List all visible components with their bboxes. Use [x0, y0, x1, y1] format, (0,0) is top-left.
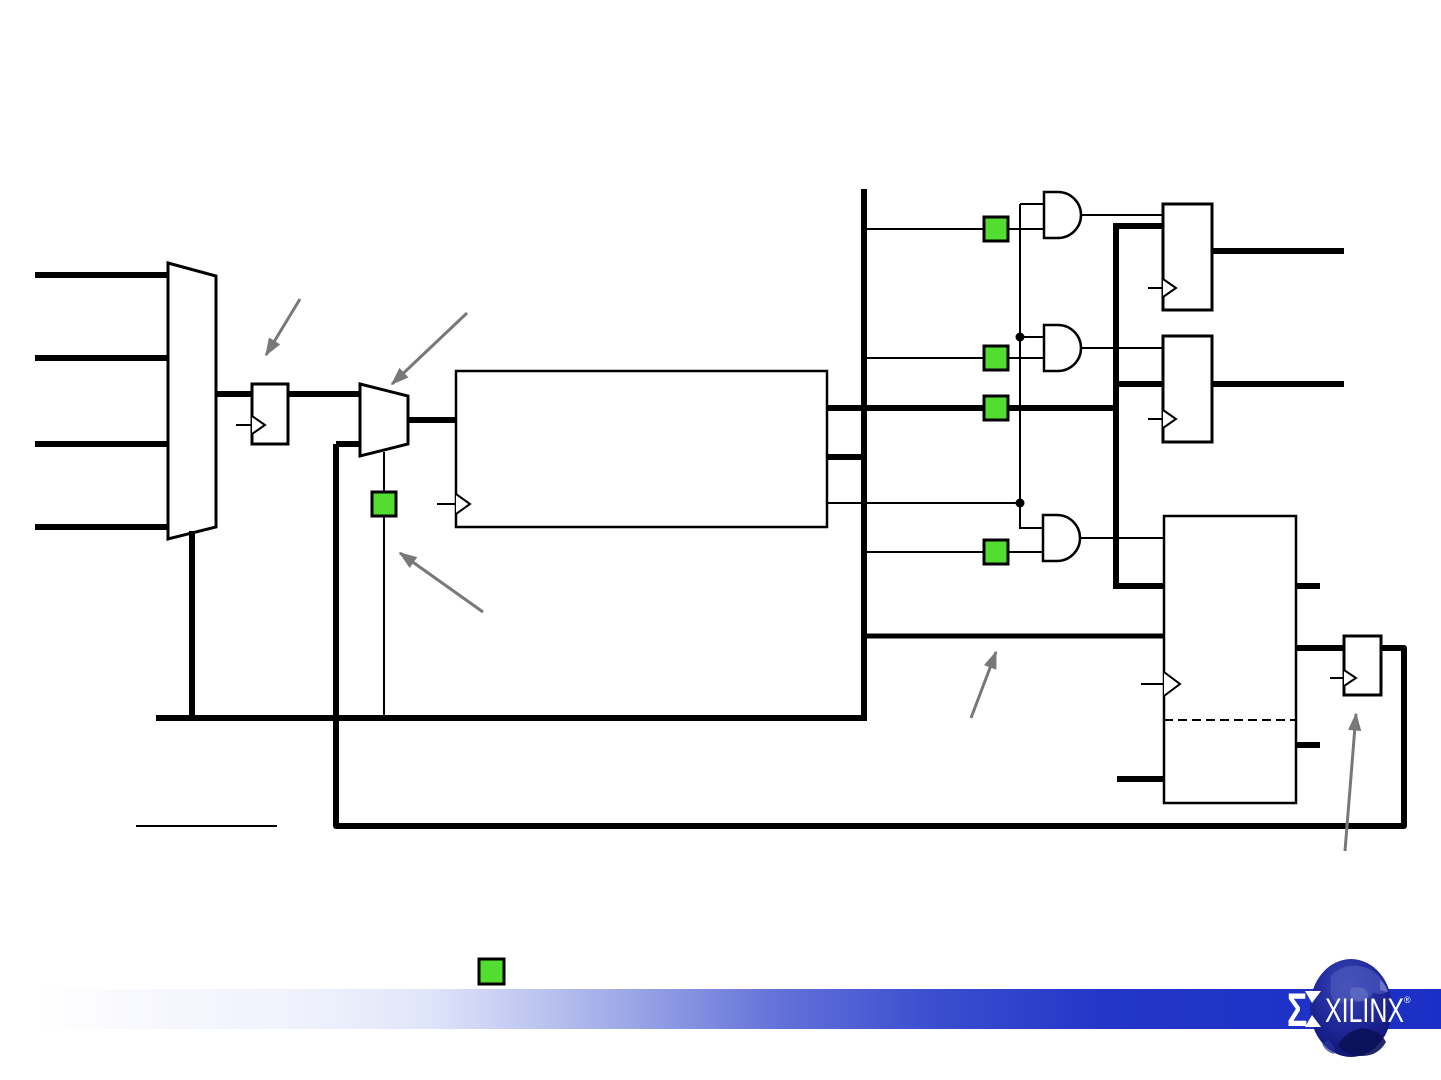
wire input line 3 to mux M1: [35, 441, 170, 447]
wire mux M1 output to flip-flop FF-A: [216, 391, 252, 397]
AND gate G1: [1044, 192, 1081, 238]
wire bus B1 to shift register (medium): [864, 634, 1164, 639]
wire SR1 stub right top: [1296, 583, 1320, 589]
LUT clock stub: [437, 503, 456, 505]
AND gate G2: [1044, 325, 1081, 371]
flip-flop FF2: [1163, 336, 1212, 442]
wire G1 output to FF1: [1081, 214, 1163, 216]
FF1 clock stub: [1148, 287, 1163, 289]
wire G2 output to FF2: [1081, 347, 1163, 349]
wire B1 to config cell CC2 row: [864, 357, 984, 359]
wire input line 4 to mux M1: [35, 524, 170, 530]
wire select line vertical (AND enable chain): [1020, 204, 1043, 528]
config cell square on M2 select: [372, 492, 396, 516]
config cell CC2: [984, 346, 1008, 370]
svg-text:Σ: Σ: [1287, 984, 1307, 1037]
config cell CC1: [984, 217, 1008, 241]
arrow annotation A3 (points at config cell on M2 select): [400, 553, 483, 612]
bus B1 (vertical feedback bus): [156, 189, 864, 718]
wire B1 to config cell CC1 row: [864, 228, 984, 230]
SR1 clock stub: [1141, 683, 1164, 685]
FF-A clock stub: [236, 424, 252, 426]
AND gate G3: [1043, 515, 1080, 561]
FF-A clock triangle: [252, 416, 265, 434]
SR1 clock triangle: [1164, 672, 1180, 696]
node junction dot J1: [1016, 333, 1025, 342]
arrow annotation A2 (points at mux M2): [392, 313, 467, 384]
FF3 clock triangle: [1344, 670, 1356, 686]
wire FF1 output: [1212, 248, 1344, 254]
bus B2 (vertical distribution bus): [1116, 226, 1164, 586]
wire CC4 to AND3 input: [1008, 551, 1043, 553]
config cell CC4: [984, 540, 1008, 564]
wire B1 to config cell CC4 row: [864, 551, 984, 553]
wire select into AND2: [1020, 336, 1044, 338]
wire mux M2 output to LUT: [408, 417, 456, 423]
arrow annotation A4 (points at carry wire): [971, 652, 996, 718]
wire label underline bottom left: [136, 825, 277, 827]
wire CC2 to AND2 input: [1008, 357, 1044, 359]
wire FF2 output: [1212, 381, 1344, 387]
wire B2 to FF2 input: [1116, 381, 1163, 387]
wire G3 output to shift register: [1080, 537, 1164, 539]
wire feedback loop FF3 to mux M2: [336, 444, 1404, 826]
wire FF-A output to mux M2: [288, 391, 360, 397]
wire LUT output stub 3 (thin): [827, 502, 1020, 504]
wire SR1 stub left bottom: [1117, 776, 1164, 782]
wire CC1 to AND1 input: [1008, 228, 1044, 230]
flip-flop FF3 (output register): [1344, 636, 1381, 695]
wire select top into AND1: [1020, 203, 1044, 205]
flip-flop FF-A (input register): [252, 384, 288, 444]
footer gradient band: [33, 989, 1441, 1029]
FF2 clock triangle: [1163, 410, 1176, 428]
Xilinx globe logo: [1310, 959, 1392, 1057]
svg-text:®: ®: [1404, 995, 1411, 1005]
config cell CC3 (on bypass wire): [984, 396, 1008, 420]
arrow annotation A1 (points at FF-A): [266, 299, 300, 355]
wire SR1 output to FF3: [1296, 645, 1344, 651]
wire mux M2 select line (thin, down): [383, 452, 385, 718]
wire LUT output stub 2: [827, 454, 867, 460]
mux M1 (input select multiplexer): [168, 263, 216, 539]
svg-text:XILINX: XILINX: [1325, 992, 1404, 1030]
LUT clock triangle: [456, 494, 470, 514]
wire input line 2 to mux M1: [35, 355, 170, 361]
SR1 dashed divider: [1164, 719, 1296, 721]
wire LUT output bypass (thick, through config cell to bus2): [827, 405, 1119, 411]
wire input line 1 to mux M1: [35, 272, 170, 278]
node junction dot J2: [1016, 499, 1025, 508]
shift register block SR1: [1164, 516, 1296, 803]
FF1 clock triangle: [1163, 279, 1176, 297]
FF2 clock stub: [1148, 418, 1163, 420]
Xilinx sigma glyph right wing: [1305, 991, 1321, 1027]
mux M2 (bypass multiplexer): [360, 384, 408, 456]
flip-flop FF1: [1163, 204, 1212, 310]
wire SR1 stub right bottom: [1296, 742, 1320, 748]
arrow annotation A5 (points at FF3): [1345, 714, 1356, 851]
LUT block U1: [456, 371, 827, 527]
legend config cell square: [479, 959, 504, 984]
wire mux M1 bottom to bus B1: [189, 531, 195, 718]
wire feedback into mux M2: [336, 441, 360, 447]
FF3 clock stub: [1330, 677, 1344, 679]
